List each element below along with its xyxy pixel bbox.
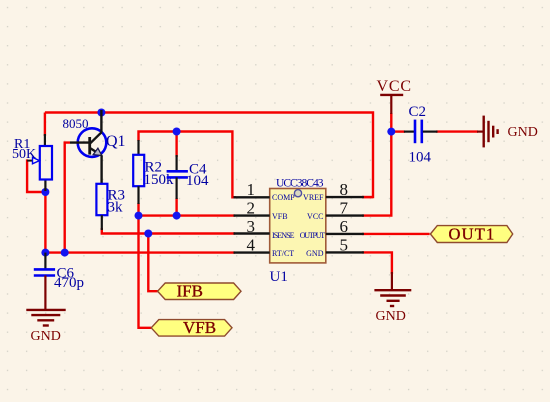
pin 3 ISENSE stub bbox=[234, 231, 295, 240]
pin number 8 bbox=[340, 180, 349, 199]
resistor R1 (potentiometer body) bbox=[27, 134, 52, 191]
pin number 5 bbox=[340, 235, 349, 254]
wire: pin 6 OUTPUT to OUT1 port bbox=[362, 233, 430, 235]
junction: top rail / Q1 collector bbox=[97, 109, 105, 117]
svg-text:VREF: VREF bbox=[303, 193, 324, 202]
pin number 7 bbox=[340, 198, 349, 217]
label R3 bbox=[108, 188, 126, 204]
svg-text:1: 1 bbox=[247, 180, 256, 199]
junction: pin 3 line / IFB drop bbox=[144, 230, 152, 238]
junction: pin 2 line / C4 bottom bbox=[173, 212, 181, 220]
label 3k bbox=[108, 200, 124, 216]
junction: pin 4 line / Q1 base branch bbox=[61, 249, 69, 257]
svg-text:IFB: IFB bbox=[177, 282, 203, 301]
port IFB bbox=[158, 282, 241, 301]
pin 1 COMP stub bbox=[234, 193, 296, 202]
svg-text:VCC: VCC bbox=[377, 78, 412, 95]
wire: VFB pin 2 line bbox=[139, 214, 236, 216]
svg-text:C2: C2 bbox=[409, 104, 427, 120]
wire: C4 top drop bbox=[175, 132, 177, 158]
junction: COMP rail / C4 top bbox=[173, 128, 181, 136]
junction: pin 2 line / R2 bottom / VFB drop bbox=[135, 212, 143, 220]
pin 8 VREF stub bbox=[303, 193, 364, 202]
wire: ISENSE pin 3 line from R3 bottom bbox=[102, 228, 235, 234]
svg-text:ISENSE: ISENSE bbox=[272, 231, 295, 240]
capacitor C6 bbox=[34, 253, 55, 276]
junction: pin 4 line / C6 / R1 branch bbox=[41, 249, 49, 257]
port OUT1 bbox=[430, 225, 512, 244]
svg-text:OUTPUT: OUTPUT bbox=[300, 231, 326, 240]
capacitor C4 bbox=[167, 155, 188, 199]
svg-text:470p: 470p bbox=[54, 275, 84, 291]
pin number 3 bbox=[247, 217, 256, 236]
wire: RT/CT pin 4 line bbox=[45, 251, 235, 253]
svg-text:150k: 150k bbox=[144, 172, 175, 188]
pin 4 RT/CT stub bbox=[234, 249, 295, 258]
svg-text:VCC: VCC bbox=[307, 212, 323, 221]
wire: VFB drop to VFB port bbox=[139, 216, 152, 328]
ground symbol below C6 bbox=[26, 276, 65, 326]
label 104 (C4 value) bbox=[186, 173, 209, 189]
label GND (below pin 5) bbox=[376, 309, 406, 324]
pin 7 VCC stub bbox=[307, 212, 364, 221]
pin number 2 bbox=[247, 198, 256, 217]
svg-text:3: 3 bbox=[247, 217, 256, 236]
svg-text:Q1: Q1 bbox=[106, 133, 126, 150]
ground symbol below pin 5 bbox=[374, 272, 411, 306]
op-amp U1 (UCC38C43 controller body) bbox=[270, 189, 326, 263]
wire: R1 wiper to R1 bottom bbox=[27, 161, 45, 192]
svg-text:RT/CT: RT/CT bbox=[272, 249, 294, 258]
pin 5 GND stub bbox=[306, 249, 364, 258]
wire: COMP rail from R2 top over to pin 1 bbox=[139, 132, 237, 198]
svg-text:5: 5 bbox=[340, 235, 349, 254]
svg-text:UCC38C43: UCC38C43 bbox=[276, 178, 324, 190]
capacitor C2 bbox=[404, 120, 438, 144]
svg-text:2: 2 bbox=[247, 198, 256, 217]
label C2 bbox=[409, 104, 427, 120]
port VFB bbox=[151, 318, 232, 337]
label 8050 bbox=[63, 116, 89, 131]
label C4 bbox=[189, 162, 207, 178]
label R1 bbox=[14, 137, 30, 152]
svg-text:VFB: VFB bbox=[272, 212, 288, 221]
svg-text:COMP: COMP bbox=[272, 193, 295, 202]
label U1 bbox=[270, 269, 288, 285]
label Q1 bbox=[106, 133, 126, 150]
svg-text:50K: 50K bbox=[12, 147, 36, 162]
pin 6 OUTPUT stub bbox=[300, 231, 364, 240]
label C6 bbox=[57, 266, 75, 282]
wire: pin 8 to top rail riser bbox=[362, 196, 373, 198]
svg-text:GND: GND bbox=[306, 249, 324, 258]
label 150k bbox=[144, 172, 175, 188]
svg-text:104: 104 bbox=[186, 173, 209, 189]
power symbol VCC bbox=[377, 78, 412, 114]
pin number 4 bbox=[247, 235, 256, 254]
svg-text:3k: 3k bbox=[108, 200, 124, 216]
wire: IFB drop to IFB port bbox=[148, 234, 157, 292]
wire: R1 top drop bbox=[44, 113, 46, 137]
label 104 (C2 value) bbox=[409, 150, 432, 166]
label GND (left) bbox=[31, 329, 61, 344]
wire: pin 7 to VCC riser bbox=[362, 113, 391, 216]
label UCC38C43 bbox=[276, 178, 324, 190]
svg-text:U1: U1 bbox=[270, 269, 288, 285]
wire: pin 5 GND drop bbox=[362, 252, 392, 274]
wire: VREF top rail from R1 top to pin 8 drop bbox=[45, 113, 373, 198]
label R2 bbox=[145, 160, 163, 176]
svg-text:8050: 8050 bbox=[63, 116, 89, 131]
svg-text:GND: GND bbox=[31, 329, 61, 344]
wire: C2 right to sideways ground bbox=[436, 130, 478, 132]
transistor Q1 (NPN 8050) bbox=[70, 110, 106, 184]
svg-text:8: 8 bbox=[340, 180, 349, 199]
pin number 6 bbox=[340, 217, 349, 236]
label 50K bbox=[12, 147, 36, 162]
junction: VCC node / C2 bbox=[387, 128, 395, 136]
resistor R2 bbox=[133, 140, 144, 204]
svg-text:6: 6 bbox=[340, 217, 349, 236]
label GND (right of C2) bbox=[508, 125, 538, 140]
ground symbol (sideways, right of C2) bbox=[477, 116, 498, 148]
wire: C4 bottom stub to pin 2 line bbox=[175, 198, 177, 216]
svg-text:104: 104 bbox=[409, 150, 432, 166]
pin 2 VFB stub bbox=[234, 212, 288, 221]
pin number 1 bbox=[247, 180, 256, 199]
wire: Q1 base drop to RT/CT line bbox=[65, 143, 70, 253]
svg-text:7: 7 bbox=[340, 198, 349, 217]
svg-text:4: 4 bbox=[247, 235, 256, 254]
wire: VCC node to C2 left bbox=[391, 130, 405, 132]
svg-text:VFB: VFB bbox=[183, 318, 216, 337]
svg-text:OUT1: OUT1 bbox=[449, 225, 496, 244]
junction: R1 bottom / wiper return bbox=[41, 188, 49, 196]
label 470p bbox=[54, 275, 84, 291]
svg-text:GND: GND bbox=[376, 309, 406, 324]
wire: R2 bottom stub to pin 2 line bbox=[137, 203, 139, 216]
wire: R1 bottom down to RT/CT line bbox=[44, 190, 46, 253]
svg-text:GND: GND bbox=[508, 125, 538, 140]
resistor R3 bbox=[96, 184, 107, 230]
